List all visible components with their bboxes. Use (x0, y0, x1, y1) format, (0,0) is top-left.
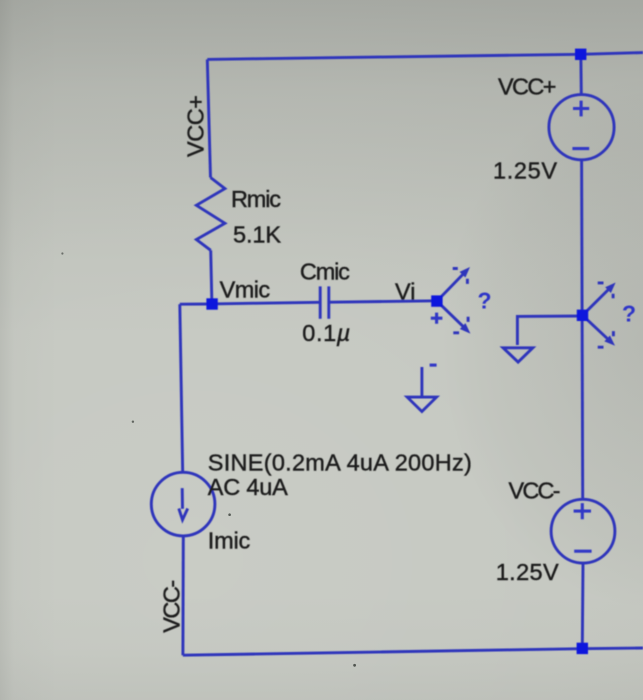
wire Cmic to Vi node (330, 301, 437, 302)
wire top rail right stub (581, 53, 643, 55)
svg-text:5.1K: 5.1K (233, 221, 281, 247)
wire VCC+ node to V1 top (579, 59, 582, 95)
svg-text:1.25V: 1.25V (493, 158, 557, 184)
ground right (503, 348, 533, 362)
wire bottom rail (183, 649, 582, 656)
wire Q? node to ground corner (517, 316, 582, 345)
capacitor Cmic (320, 286, 329, 318)
V2 plus mark (574, 503, 591, 519)
svg-text:?: ? (622, 301, 636, 327)
current source Imic circle (151, 472, 215, 536)
V2 minus mark (574, 550, 591, 553)
node bottom-right junction (577, 643, 588, 654)
wire resistor to Vmic node (211, 250, 212, 304)
wire top rail (207, 54, 580, 59)
svg-text:0.1µ: 0.1µ (302, 320, 350, 346)
svg-text:VCC+: VCC+ (498, 73, 557, 99)
wire left drop to Imic top (180, 304, 183, 473)
wire Q? node down to V2 top (581, 315, 585, 499)
unknown component Q? arrows (583, 288, 611, 341)
svg-text:Cmic: Cmic (300, 258, 350, 284)
unknown component Q? dashed pin marks (598, 283, 614, 347)
svg-text:Imic: Imic (208, 527, 251, 553)
U? plus pin label (431, 313, 443, 324)
svg-text:Rmic: Rmic (231, 186, 281, 212)
V1 plus mark (573, 101, 589, 117)
wire V2 bottom to bottom rail node (581, 563, 585, 648)
voltage source V1 circle (549, 95, 614, 160)
V1 minus mark (572, 147, 589, 150)
wire V1 bottom to Q? node (580, 160, 583, 315)
U? minus pin label (430, 364, 437, 367)
node Q? pin (577, 310, 588, 321)
unknown component U? arrows (437, 273, 465, 329)
svg-text:1.25V: 1.25V (496, 559, 559, 585)
voltage source V2 circle (551, 499, 615, 563)
current source Imic arrow (179, 488, 188, 520)
wire Vmic node to left corner (180, 303, 212, 306)
ground below U? minus pin (407, 367, 436, 412)
svg-text:Vmic: Vmic (220, 276, 271, 302)
node Vi input pin (431, 295, 442, 306)
svg-text:Vi: Vi (395, 279, 415, 305)
wire left vertical from top corner to resistor (207, 59, 210, 177)
node top-right junction (575, 49, 586, 60)
svg-text:VCC-: VCC- (509, 478, 561, 504)
wire Vmic node to Cmic (212, 302, 319, 304)
svg-text:?: ? (478, 288, 492, 314)
resistor Rmic (196, 178, 225, 251)
svg-text:VCC+: VCC+ (183, 95, 209, 157)
svg-text:SINE(0.2mA 4uA 200Hz): SINE(0.2mA 4uA 200Hz) (208, 449, 472, 475)
svg-text:AC 4uA: AC 4uA (208, 474, 288, 500)
wire bottom rail right stub (582, 647, 643, 651)
svg-text:VCC-: VCC- (159, 580, 185, 633)
unknown component U? dashed pin marks (453, 269, 468, 333)
wire Imic bottom to bottom-left corner (181, 536, 184, 655)
node Vmic junction (206, 298, 217, 309)
